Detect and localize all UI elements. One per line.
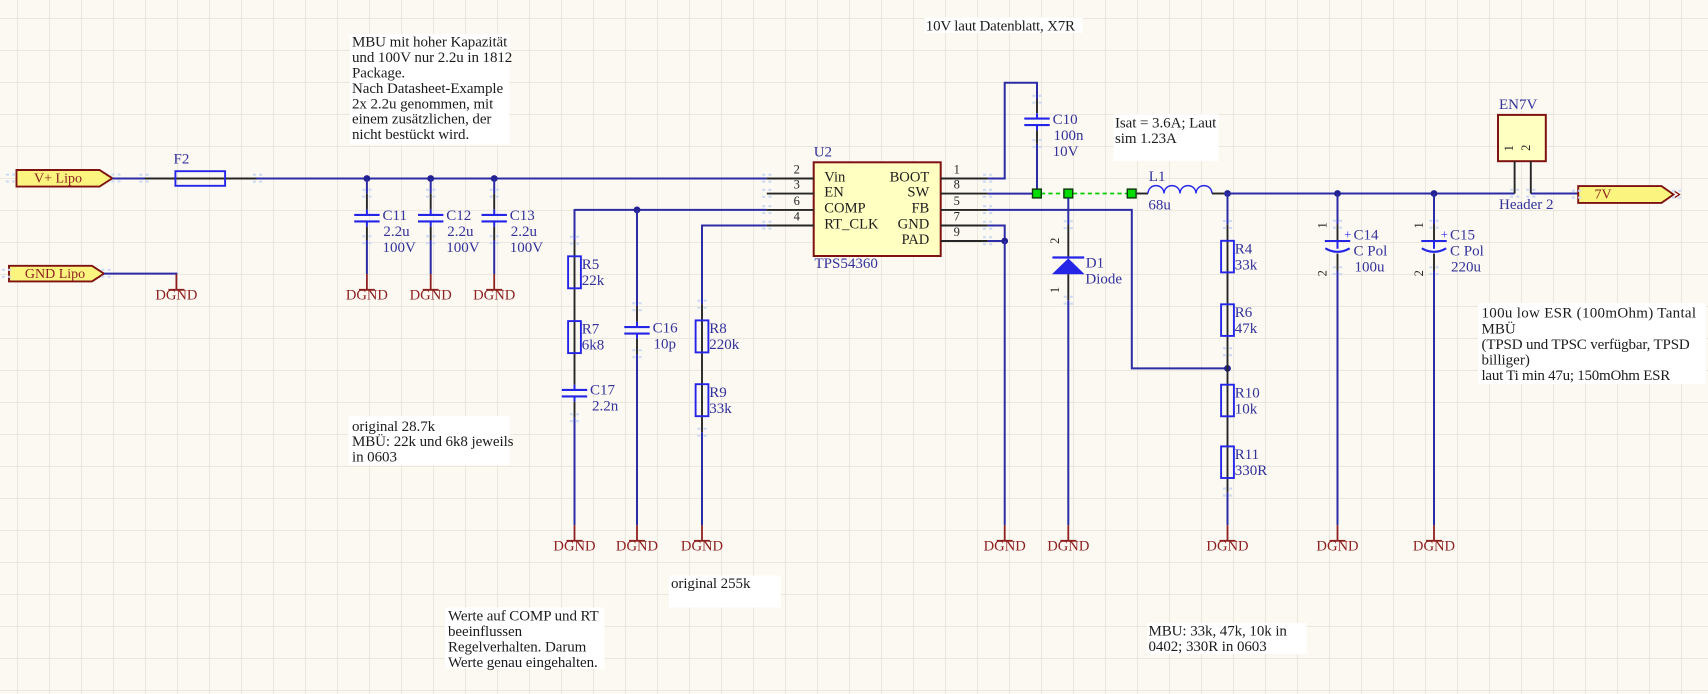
port GND Lipo [9, 266, 104, 282]
green square node 3 [1127, 189, 1136, 198]
svg-text:68u: 68u [1148, 198, 1171, 214]
svg-text:0402; 330R in 0603: 0402; 330R in 0603 [1149, 639, 1267, 655]
svg-text:billiger): billiger) [1482, 353, 1530, 369]
junction C14 [1334, 190, 1341, 197]
svg-text:33k: 33k [709, 401, 732, 417]
wire C12 column [430, 179, 432, 194]
svg-text:2: 2 [1519, 145, 1533, 151]
junction at C11 [364, 175, 371, 182]
pin C17 bottom [574, 402, 576, 418]
svg-text:C14: C14 [1354, 227, 1380, 243]
svg-text:R6: R6 [1235, 305, 1253, 321]
capacitor C11 2.2u [354, 208, 416, 256]
resistor R7 6k8 [568, 321, 604, 354]
note: Werte auf COMP und RT [445, 608, 605, 671]
svg-text:Diode: Diode [1085, 271, 1122, 287]
power port R11col DGND at (1227.5,525.1) [1206, 525, 1248, 555]
polarized capacitor C14 100u [1316, 222, 1388, 276]
svg-text:6k8: 6k8 [582, 338, 605, 354]
svg-text:F2: F2 [174, 151, 190, 167]
svg-text:7V: 7V [1594, 188, 1611, 203]
junction at C16 [634, 207, 641, 214]
capacitor C17 2.2n [562, 383, 619, 415]
wire V+ Lipo to F2 [112, 178, 145, 180]
power port C15 DGND at (1434,525.1) [1413, 525, 1455, 555]
power port R5col DGND at (574.5,525.1) [553, 525, 595, 555]
fuse F2 [145, 151, 257, 186]
svg-text:DGND: DGND [681, 539, 723, 555]
wire RT_CLK net [702, 225, 767, 227]
junction FB divider [1224, 365, 1231, 372]
svg-text:2x 2.2u genommen, mit: 2x 2.2u genommen, mit [352, 96, 494, 112]
wire R9 to DGND [701, 432, 703, 525]
svg-text:2: 2 [794, 162, 800, 176]
U2 pin 8 SW [907, 178, 987, 201]
capacitor C10 100n [1024, 112, 1084, 160]
wire C16 column [636, 210, 638, 307]
svg-text:5: 5 [954, 194, 960, 208]
wire rail to R4 [1227, 194, 1229, 225]
resistor R9 33k [696, 384, 733, 417]
EN7V pin 2 [1530, 161, 1532, 193]
wire BOOT to C10 [988, 83, 1037, 179]
svg-text:10p: 10p [654, 336, 677, 352]
wire C11 column [366, 179, 368, 194]
svg-text:C17: C17 [590, 383, 616, 399]
svg-text:2.2u: 2.2u [447, 224, 474, 240]
svg-text:9: 9 [954, 225, 960, 239]
svg-text:1: 1 [954, 162, 960, 176]
svg-text:Header 2: Header 2 [1499, 197, 1554, 213]
svg-text:TPS54360: TPS54360 [815, 256, 878, 272]
svg-text:R9: R9 [709, 385, 727, 401]
svg-text:Package.: Package. [352, 66, 405, 82]
svg-text:(TPSD und TPSC verfügbar, TPSD: (TPSD und TPSC verfügbar, TPSD [1482, 337, 1690, 353]
U2 pin 9 PAD [901, 225, 987, 248]
power port R9col DGND at (702,525.1) [681, 525, 723, 555]
capacitor C12 2.2u [418, 208, 480, 256]
svg-text:1: 1 [1316, 222, 1330, 228]
svg-text:2.2n: 2.2n [592, 399, 619, 415]
svg-text:100u low ESR (100mOhm) Tantal: 100u low ESR (100mOhm) Tantal [1482, 306, 1697, 322]
wire GND pin to PAD junction [988, 226, 1005, 242]
resistor R6 47k [1221, 304, 1258, 337]
junction PAD [1001, 238, 1008, 245]
svg-text:C15: C15 [1450, 227, 1475, 243]
wire C10 to SW [1036, 144, 1038, 194]
svg-text:Vin: Vin [824, 169, 846, 185]
svg-text:2: 2 [1316, 270, 1330, 276]
svg-text:original 28.7k: original 28.7k [352, 419, 436, 435]
wire SW [988, 193, 1032, 195]
svg-text:GND: GND [898, 216, 930, 232]
svg-text:EN: EN [824, 184, 844, 200]
power port C16col DGND at (637,525.1) [616, 525, 658, 555]
svg-text:SW: SW [907, 184, 929, 200]
svg-text:100n: 100n [1054, 128, 1085, 144]
svg-text:EN7V: EN7V [1499, 97, 1537, 113]
power port GND Lipo DGND at (176.4,274.1) [155, 274, 197, 304]
green square node 2 [1064, 189, 1073, 198]
diode D1 [1048, 238, 1123, 293]
svg-text:DGND: DGND [346, 288, 388, 304]
svg-text:Werte genau eingehalten.: Werte genau eingehalten. [448, 655, 598, 671]
svg-text:4: 4 [794, 209, 801, 223]
op IC U2 TPS54360 [814, 145, 941, 273]
junction L1 out [1224, 190, 1231, 197]
svg-text:1: 1 [1412, 222, 1426, 228]
svg-text:C Pol: C Pol [1354, 243, 1388, 259]
port V+ Lipo [17, 170, 113, 187]
note: 10V laut Datenblatt, X7R [925, 18, 1083, 35]
power port C12 DGND at (430.7,274.1) [410, 274, 452, 304]
svg-text:2.2u: 2.2u [511, 224, 538, 240]
svg-text:100V: 100V [510, 240, 544, 256]
svg-text:MBU: 33k, 47k, 10k in: MBU: 33k, 47k, 10k in [1149, 624, 1288, 640]
svg-text:100V: 100V [383, 240, 417, 256]
wire SW to D1 [1067, 198, 1069, 225]
svg-text:100u: 100u [1355, 259, 1386, 275]
svg-text:COMP: COMP [824, 201, 865, 217]
svg-text:R4: R4 [1235, 241, 1253, 257]
svg-text:sim 1.23A: sim 1.23A [1115, 131, 1177, 147]
svg-text:47k: 47k [1235, 321, 1258, 337]
svg-text:+: + [1441, 228, 1448, 242]
note: original 255k [669, 576, 781, 608]
wire C15 column [1433, 194, 1435, 225]
power port C14 DGND at (1337.5,525.1) [1316, 525, 1358, 555]
svg-text:D1: D1 [1086, 255, 1104, 271]
svg-text:DGND: DGND [1047, 539, 1089, 555]
svg-text:beeinflussen: beeinflussen [448, 624, 523, 640]
svg-text:Isat = 3.6A; Laut: Isat = 3.6A; Laut [1115, 115, 1217, 131]
resistor R5 22k [568, 256, 605, 289]
svg-text:Nach Datasheet-Example: Nach Datasheet-Example [352, 81, 504, 97]
wire Vin rail F2 to U2 pin 2 [257, 178, 767, 180]
inductor L1 68u [1137, 169, 1225, 214]
svg-text:laut Ti min 47u; 150mOhm ESR: laut Ti min 47u; 150mOhm ESR [1482, 368, 1671, 384]
note: original 28.7k [349, 416, 514, 466]
svg-text:V+ Lipo: V+ Lipo [34, 172, 82, 187]
capacitor C16 10p [624, 320, 678, 352]
pin R8 top [701, 304, 703, 432]
U2 pin 2 Vin [767, 162, 846, 185]
wire 7V rail [1224, 193, 1514, 195]
svg-text:1: 1 [1048, 287, 1062, 293]
svg-text:in 0603: in 0603 [352, 450, 397, 466]
svg-text:3: 3 [794, 178, 800, 192]
polarized capacitor C15 220u [1412, 222, 1484, 276]
U2 pin 4 RT_CLK [767, 209, 879, 232]
U2 pin 5 FB [911, 194, 987, 217]
svg-text:PAD: PAD [901, 232, 929, 248]
resistor R10 10k [1221, 385, 1260, 418]
wire COMP net [575, 209, 767, 211]
svg-text:C11: C11 [383, 208, 407, 224]
svg-text:DGND: DGND [553, 539, 595, 555]
svg-text:10V laut Datenblatt, X7R: 10V laut Datenblatt, X7R [926, 18, 1075, 34]
wire R11 to DGND [1227, 492, 1229, 525]
svg-text:100V: 100V [446, 240, 480, 256]
svg-text:DGND: DGND [155, 288, 197, 304]
svg-text:Regelverhalten. Darum: Regelverhalten. Darum [448, 640, 587, 656]
svg-text:DGND: DGND [616, 539, 658, 555]
svg-text:Werte auf COMP und RT: Werte auf COMP und RT [448, 609, 599, 625]
green square node 1 [1033, 189, 1042, 198]
svg-text:BOOT: BOOT [890, 169, 930, 185]
wire C13 column [493, 179, 495, 194]
EN7V pin 1 [1514, 161, 1516, 193]
svg-text:7: 7 [954, 209, 960, 223]
svg-text:10k: 10k [1235, 401, 1258, 417]
svg-text:nicht bestückt wird.: nicht bestückt wird. [352, 127, 469, 143]
svg-text:DGND: DGND [410, 288, 452, 304]
wire FB net [988, 210, 1228, 369]
svg-text:22k: 22k [582, 273, 605, 289]
wire C14 column [1337, 194, 1339, 225]
svg-text:10V: 10V [1053, 144, 1079, 160]
svg-text:330R: 330R [1235, 463, 1268, 479]
svg-text:33k: 33k [1235, 257, 1258, 273]
port 7V [1578, 186, 1679, 203]
svg-text:R5: R5 [582, 257, 600, 273]
svg-text:DGND: DGND [473, 288, 515, 304]
svg-text:C13: C13 [510, 208, 535, 224]
svg-text:DGND: DGND [1413, 539, 1455, 555]
svg-text:L1: L1 [1149, 169, 1166, 185]
resistor R8 220k [696, 320, 740, 353]
note: 100u low ESR [1478, 303, 1706, 384]
svg-text:C12: C12 [446, 208, 471, 224]
power port PADcol DGND at (1004.7,525.1) [984, 525, 1026, 555]
svg-text:1: 1 [1502, 145, 1516, 151]
svg-text:220u: 220u [1451, 259, 1482, 275]
power port D1col DGND at (1068.3,525.1) [1047, 525, 1089, 555]
junction at C12 [427, 175, 434, 182]
svg-text:FB: FB [911, 201, 929, 217]
note: Isat [1114, 114, 1219, 161]
svg-text:MBÜ: MBÜ [1482, 320, 1516, 337]
U2 pin 1 BOOT [890, 162, 988, 185]
resistor R4 33k [1221, 241, 1258, 274]
junction at C13 [491, 175, 498, 182]
power port C11 DGND at (366.9,274.1) [346, 274, 388, 304]
svg-text:C10: C10 [1053, 112, 1078, 128]
svg-text:6: 6 [794, 194, 800, 208]
svg-text:C Pol: C Pol [1450, 243, 1484, 259]
pin D1 bottom [1067, 274, 1069, 300]
svg-text:MBÜ: 22k und 6k8 jeweils: MBÜ: 22k und 6k8 jeweils [352, 433, 514, 450]
svg-text:R11: R11 [1235, 447, 1259, 463]
svg-text:DGND: DGND [984, 539, 1026, 555]
svg-text:R7: R7 [582, 322, 600, 338]
svg-text:GND Lipo: GND Lipo [25, 267, 85, 282]
U2 pin 3 EN [767, 178, 844, 201]
svg-text:einem zusätzlichen, der: einem zusätzlichen, der [352, 112, 491, 128]
svg-text:RT_CLK: RT_CLK [824, 216, 879, 232]
note: MBU mit hoher Kapazitaet [350, 34, 513, 145]
pin R5 top [574, 241, 576, 385]
capacitor C13 2.2u [482, 208, 544, 256]
svg-text:2.2u: 2.2u [383, 224, 410, 240]
svg-text:DGND: DGND [1316, 539, 1358, 555]
U2 pin 6 COMP [767, 194, 866, 217]
svg-text:C16: C16 [653, 320, 679, 336]
svg-text:R10: R10 [1235, 385, 1260, 401]
wire D1 to DGND [1067, 300, 1069, 525]
svg-text:2: 2 [1412, 270, 1426, 276]
green dashed net-tie SW [1041, 193, 1064, 195]
svg-text:U2: U2 [814, 145, 832, 161]
resistor R11 330R [1221, 446, 1267, 479]
svg-text:original 255k: original 255k [671, 576, 751, 592]
svg-text:8: 8 [954, 178, 960, 192]
wire PAD to DGND [1004, 241, 1006, 525]
wire C17 to DGND [574, 418, 576, 525]
svg-text:und 100V nur 2.2u in 1812: und 100V nur 2.2u in 1812 [352, 50, 512, 66]
svg-text:MBU mit hoher Kapazität: MBU mit hoher Kapazität [352, 35, 508, 51]
note: MBU 33k 47k 10k [1147, 623, 1307, 655]
svg-text:+: + [1344, 228, 1351, 242]
power port C13 DGND at (494.2,274.1) [473, 274, 515, 304]
connector EN7V Header 2 [1498, 97, 1554, 213]
svg-text:220k: 220k [709, 337, 740, 353]
wire GND Lipo to DGND [104, 273, 176, 275]
svg-text:DGND: DGND [1206, 539, 1248, 555]
junction C15 [1431, 190, 1438, 197]
svg-text:2: 2 [1048, 238, 1062, 244]
svg-text:R8: R8 [709, 321, 727, 337]
U2 pin 7 GND [898, 209, 988, 232]
